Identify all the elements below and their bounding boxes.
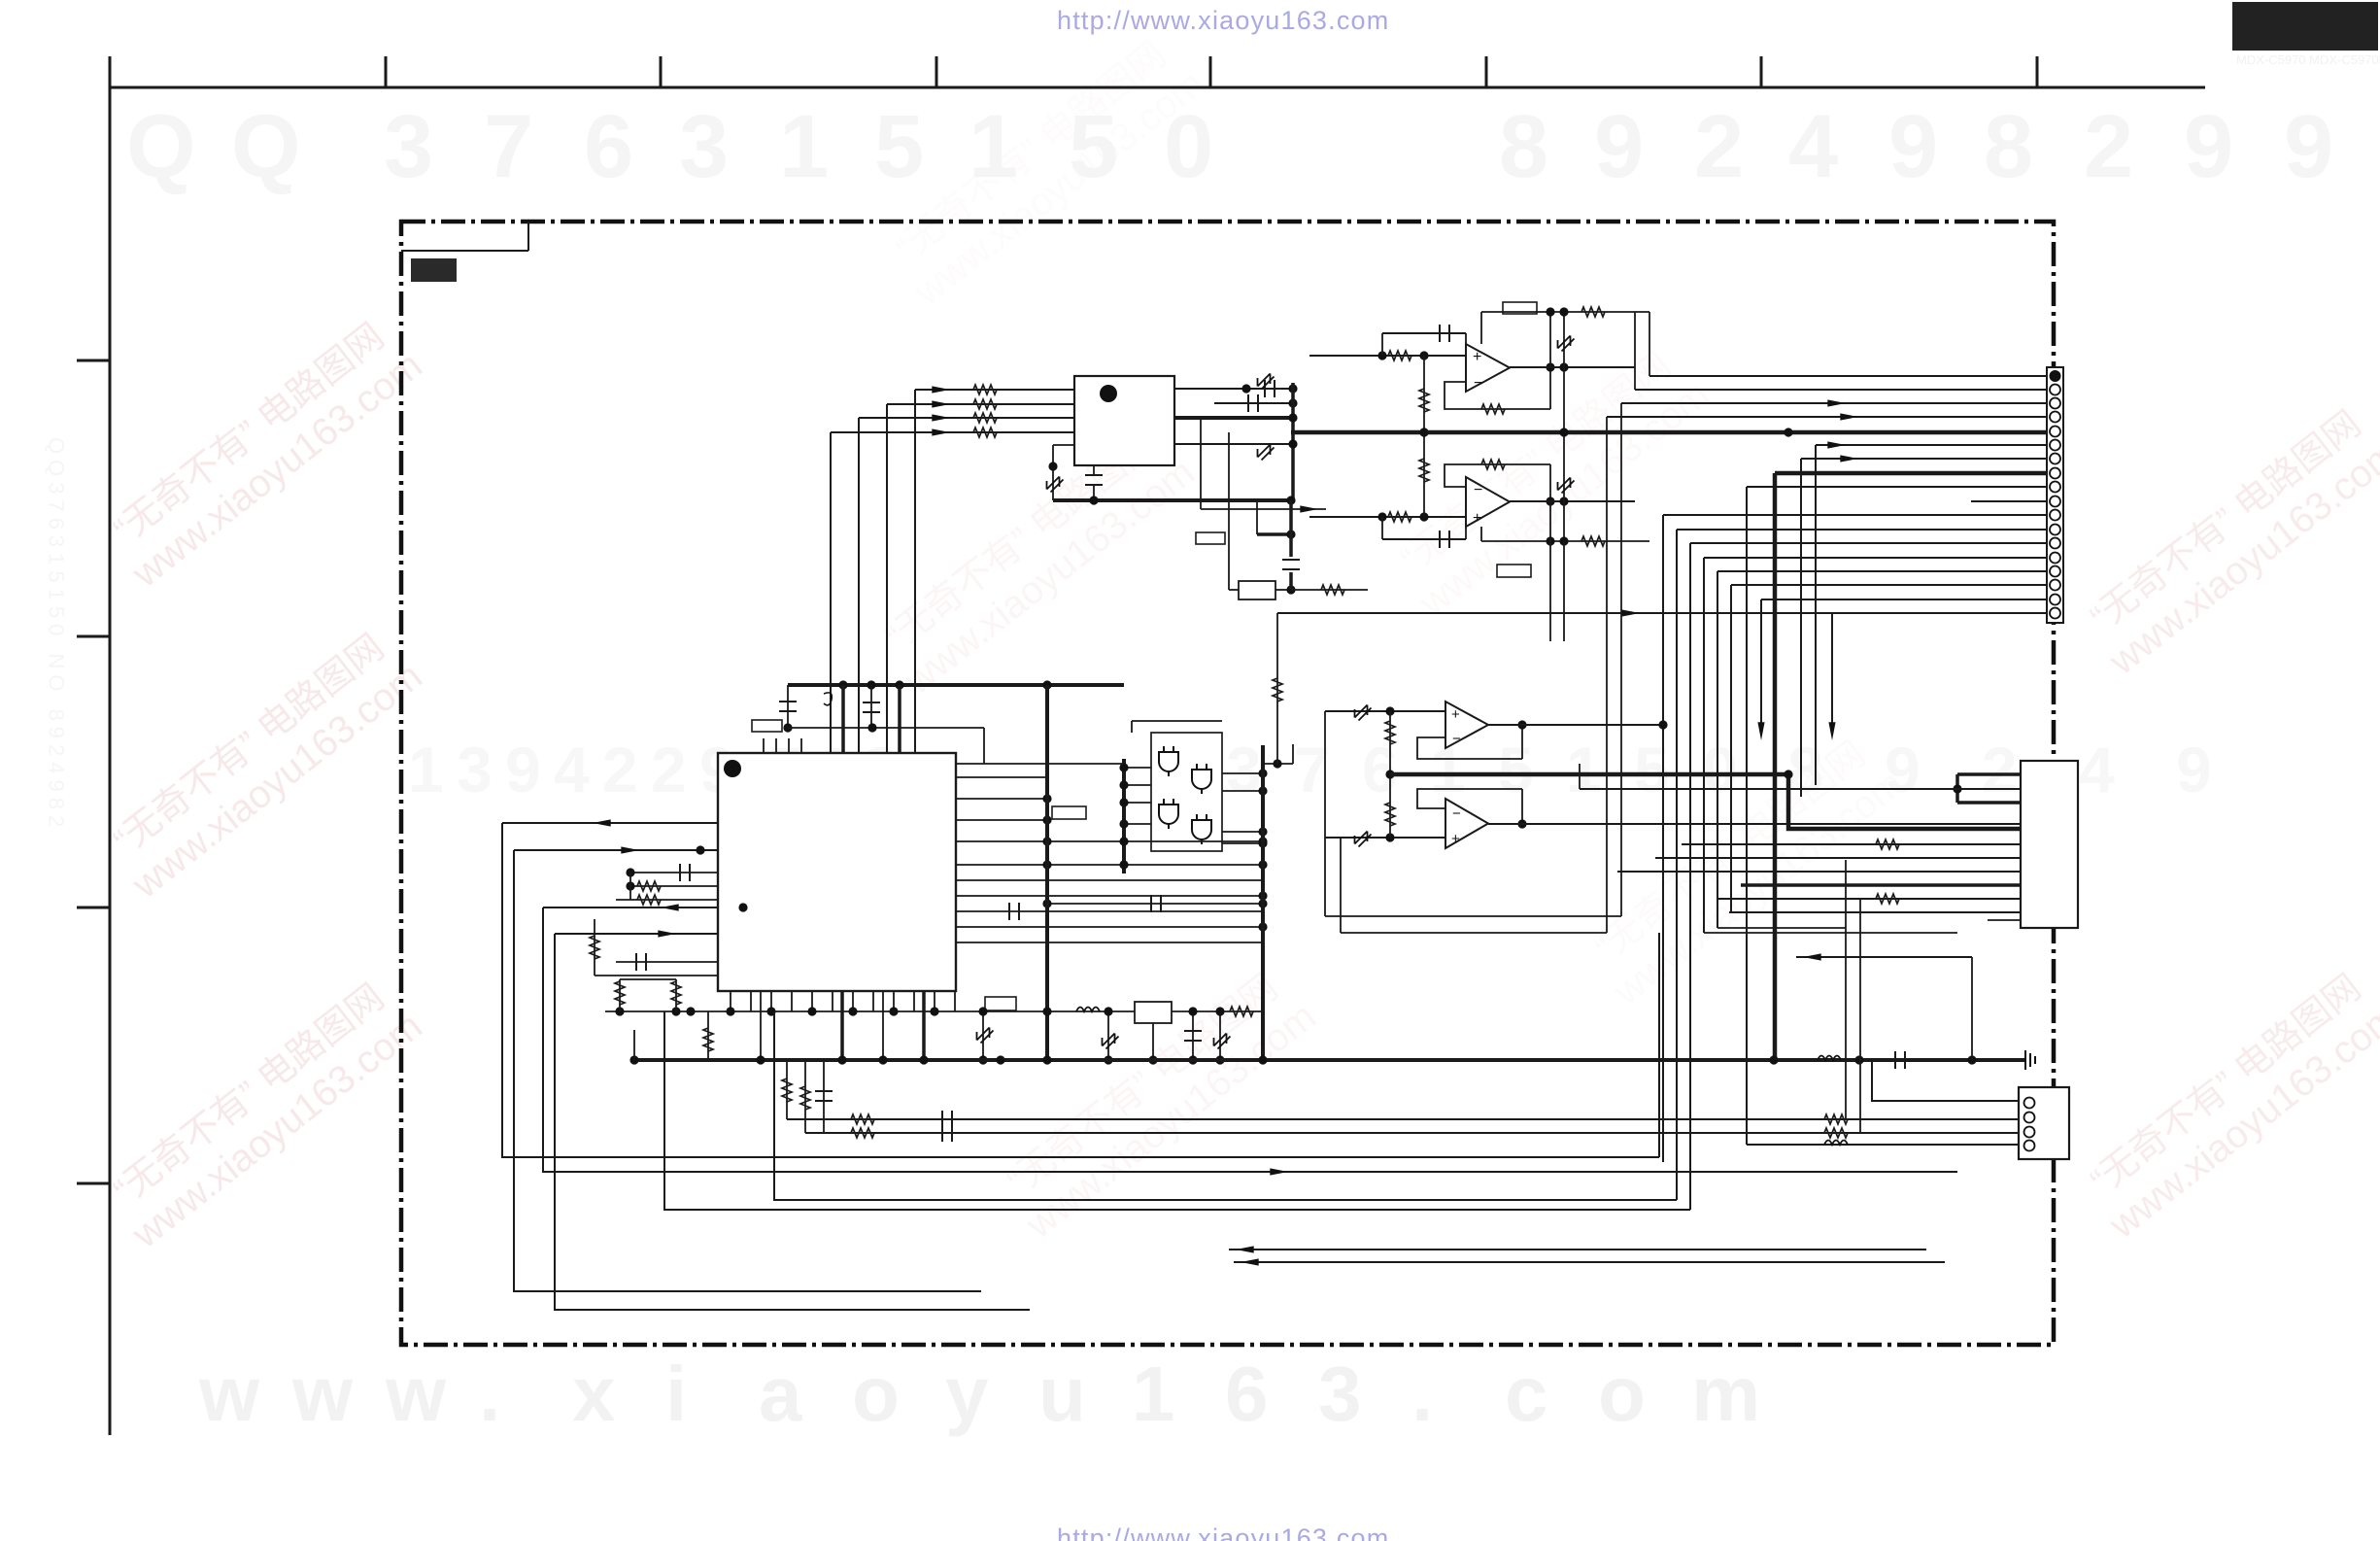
svg-text:2: 2 xyxy=(651,734,687,805)
svg-text:6: 6 xyxy=(1362,734,1398,805)
svg-text:2: 2 xyxy=(1982,734,2018,805)
svg-text:Q: Q xyxy=(126,97,196,196)
svg-text:+: + xyxy=(1451,831,1460,847)
svg-text:6: 6 xyxy=(1225,1351,1269,1437)
svg-text:0: 0 xyxy=(1164,97,1213,196)
svg-text:9: 9 xyxy=(1885,734,1921,805)
svg-text:8: 8 xyxy=(1787,734,1823,805)
svg-text:9: 9 xyxy=(505,734,541,805)
svg-text:m: m xyxy=(1691,1351,1760,1437)
svg-text:−: − xyxy=(1452,805,1461,822)
svg-text:5: 5 xyxy=(1069,97,1118,196)
svg-text:i: i xyxy=(665,1351,687,1437)
svg-text:c: c xyxy=(1505,1351,1548,1437)
svg-text:3: 3 xyxy=(679,97,729,196)
svg-text:3: 3 xyxy=(384,97,433,196)
svg-text:u: u xyxy=(1038,1351,1086,1437)
svg-text:9: 9 xyxy=(1888,97,1938,196)
svg-text:7: 7 xyxy=(484,97,533,196)
svg-text:8: 8 xyxy=(1499,97,1548,196)
svg-text:1: 1 xyxy=(408,734,444,805)
svg-text:4: 4 xyxy=(1788,97,1838,196)
svg-text:+: + xyxy=(1473,349,1481,365)
svg-text:+: + xyxy=(1473,510,1481,527)
svg-text:a: a xyxy=(759,1351,802,1437)
svg-text:Q: Q xyxy=(231,97,301,196)
svg-text:QQ376315150 NO 8924982: QQ376315150 NO 8924982 xyxy=(45,437,69,833)
svg-text:5: 5 xyxy=(1498,734,1534,805)
svg-text:2: 2 xyxy=(602,734,638,805)
svg-text:4: 4 xyxy=(2079,734,2115,805)
svg-text:5: 5 xyxy=(1634,734,1670,805)
svg-text:+: + xyxy=(1451,706,1460,723)
svg-text:MDX-C5970 MDX-C5970R: MDX-C5970 MDX-C5970R xyxy=(2236,52,2380,67)
svg-text:9: 9 xyxy=(2176,734,2212,805)
svg-text:−: − xyxy=(1474,375,1482,392)
svg-text:3: 3 xyxy=(1226,734,1262,805)
svg-text:2: 2 xyxy=(1694,97,1744,196)
svg-text:−: − xyxy=(1452,731,1461,747)
svg-text:2: 2 xyxy=(2084,97,2133,196)
svg-text:1: 1 xyxy=(779,97,829,196)
svg-text:w: w xyxy=(198,1351,260,1437)
svg-text:1: 1 xyxy=(1132,1351,1175,1437)
svg-text:w: w xyxy=(291,1351,354,1437)
svg-text:8: 8 xyxy=(1984,97,2033,196)
svg-text:3: 3 xyxy=(1318,1351,1362,1437)
svg-text:o: o xyxy=(1598,1351,1646,1437)
svg-text:0: 0 xyxy=(1702,734,1738,805)
svg-text:4: 4 xyxy=(554,734,590,805)
svg-text:http://www.xiaoyu163.com: http://www.xiaoyu163.com xyxy=(1057,6,1389,35)
svg-text:1: 1 xyxy=(969,97,1018,196)
svg-text:1: 1 xyxy=(1566,734,1602,805)
svg-text:.: . xyxy=(479,1351,500,1437)
svg-text:−: − xyxy=(1474,482,1482,498)
svg-text:w: w xyxy=(385,1351,447,1437)
svg-text:5: 5 xyxy=(874,97,924,196)
svg-text:o: o xyxy=(852,1351,900,1437)
svg-text:9: 9 xyxy=(1594,97,1644,196)
svg-text:6: 6 xyxy=(584,97,633,196)
svg-text:http://www.xiaoyu163.com: http://www.xiaoyu163.com xyxy=(1057,1524,1389,1541)
svg-text:.: . xyxy=(1411,1351,1433,1437)
svg-text:x: x xyxy=(572,1351,616,1437)
svg-text:y: y xyxy=(945,1351,989,1437)
svg-text:9: 9 xyxy=(2284,97,2333,196)
svg-text:3: 3 xyxy=(457,734,493,805)
svg-text:9: 9 xyxy=(2184,97,2233,196)
